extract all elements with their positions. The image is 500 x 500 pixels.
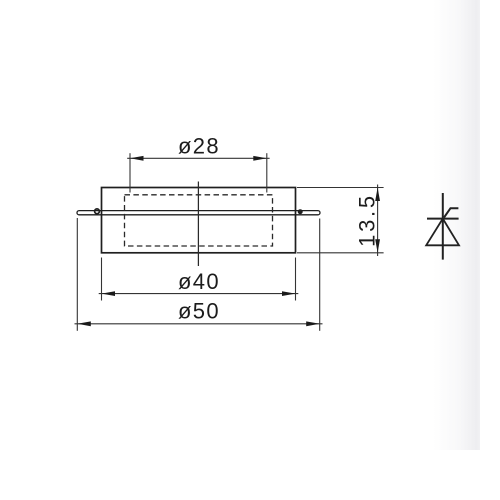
dimension 13.5 extension line bottom [297,252,384,254]
dimension 13.5 line [377,185,379,257]
flange ø50 [77,211,320,215]
svg-text:ø40: ø40 [178,269,220,294]
svg-text:ø50: ø50 [178,299,220,324]
dimension 13.5 extension line top [297,187,384,189]
weld bead left [95,209,100,214]
page shadow band [433,0,480,450]
dimension ø40 line [99,293,299,295]
dimension ø50 extension line right [319,219,321,331]
dimension ø28 arrow right [253,156,266,161]
centerline [197,182,199,267]
dimension ø28 line [127,157,269,159]
thyristor symbol gate lead [444,208,458,217]
dimension ø50 arrow left [77,321,91,326]
dimension ø40 extension line right [295,258,297,301]
hidden recess (dashed) [125,195,273,246]
thyristor symbol cathode bar [427,218,459,220]
dimension ø50 arrow right [306,321,320,326]
dimension ø40 extension line left [101,258,103,301]
thyristor symbol cathode lead [442,193,444,260]
dimension ø28 extension line left [129,153,131,192]
dimension ø40 arrow right [282,291,296,296]
weld bead right [298,209,303,214]
dimension ø28 arrow left [130,156,144,161]
dimension ø50 line [75,323,323,325]
dimension 13.5 arrow bottom [375,239,380,253]
svg-text:ø28: ø28 [178,134,220,159]
dimension 13.5 arrow top [375,188,380,202]
dimension ø28 extension line right [266,153,268,192]
svg-text:13.5: 13.5 [355,193,380,247]
body outline ø40 disc side view [102,188,296,253]
dimension ø40 arrow left [102,291,116,296]
dimension ø50 extension line left [76,218,78,331]
thyristor symbol triangle [426,219,459,246]
